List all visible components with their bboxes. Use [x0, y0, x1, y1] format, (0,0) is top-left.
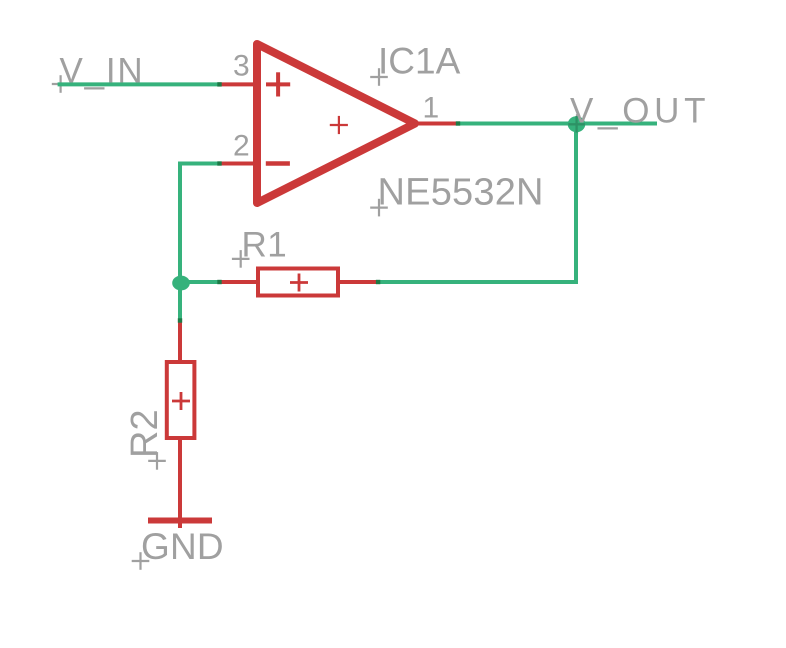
- resistor R2 pin bottom: [178, 438, 182, 480]
- resistor R1 pin left: [220, 280, 259, 284]
- svg-text:R2: R2: [124, 409, 166, 458]
- label origin cross V_IN: [52, 75, 70, 93]
- junction node A: [172, 276, 190, 291]
- pin connection dot R1 right: [376, 280, 380, 284]
- label origin cross R1: [232, 250, 250, 268]
- wire node A to R1 left: [180, 280, 220, 284]
- wire R1 right to corner: [378, 280, 578, 284]
- svg-text:V_IN: V_IN: [60, 52, 145, 91]
- wire net pin 2 vertical down to node A: [178, 162, 182, 285]
- svg-text:GND: GND: [141, 526, 224, 567]
- resistor R2 body: [167, 362, 195, 438]
- ground symbol GND: [148, 480, 212, 528]
- label origin cross NE5532N: [370, 199, 388, 217]
- wire output V_OUT: [456, 122, 657, 126]
- op-amp U1 triangle body: [257, 44, 415, 203]
- op-amp plus input marker: [266, 72, 290, 96]
- svg-text:V_OUT: V_OUT: [570, 91, 710, 130]
- pin connection dot pin 3: [217, 82, 221, 86]
- resistor R1 origin cross: [290, 274, 308, 292]
- pin 1 stub: [413, 122, 458, 126]
- wire net V_IN to pin 3: [58, 82, 220, 86]
- label origin cross IC1A: [370, 68, 388, 86]
- label origin cross R2: [148, 452, 166, 470]
- svg-text:2: 2: [233, 130, 250, 163]
- pin connection dot pin 2: [217, 161, 221, 165]
- wire corner up to output node: [574, 122, 578, 285]
- svg-text:3: 3: [233, 50, 250, 83]
- resistor R2 origin cross: [172, 392, 190, 410]
- resistor R1 body: [258, 269, 338, 296]
- svg-text:NE5532N: NE5532N: [378, 172, 544, 214]
- label origin cross GND: [132, 552, 150, 570]
- junction output node: [568, 116, 586, 132]
- op-amp origin cross: [330, 116, 348, 134]
- pin connection dot R1 left: [217, 280, 221, 284]
- label origin cross V_OUT over junction: [568, 116, 585, 133]
- resistor R2 pin top: [178, 321, 182, 363]
- label origin cross V_OUT: [567, 114, 587, 134]
- op-amp minus input marker: [266, 161, 290, 166]
- wire net pin 2 horizontal: [178, 162, 220, 166]
- pin 2 stub: [220, 162, 258, 166]
- pin connection dot R2 top: [178, 318, 182, 322]
- pin connection dot pin 1: [456, 121, 460, 125]
- svg-text:1: 1: [423, 92, 440, 125]
- resistor R1 pin right: [338, 280, 378, 284]
- pin 3 stub: [220, 82, 258, 86]
- svg-text:IC1A: IC1A: [378, 41, 461, 82]
- wire node A down to R2: [178, 282, 182, 321]
